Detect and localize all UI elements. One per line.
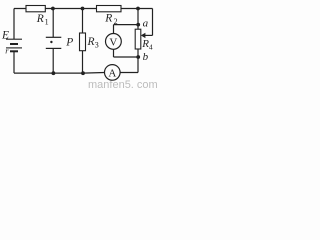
wire node b down [137,57,139,73]
background [0,0,159,89]
wire R3 branch top [82,9,84,34]
node a [136,23,140,27]
resistor R1 [26,6,45,12]
svg-text:R: R [104,13,112,25]
wire battery to bottom [13,51,15,73]
voltmeter V [106,34,122,50]
wire voltmeter top [113,25,115,34]
capacitor P bottom plate [46,47,62,49]
rheostat R4 [135,29,141,49]
wire node a branch [137,9,139,30]
wire bottom (y=72.8) [14,72,105,75]
node b [136,55,140,59]
junction top-R3 [81,7,85,11]
capacitor P top plate [46,36,62,38]
wire left (x=14 top corner down to battery) [13,9,15,40]
svg-text:E: E [1,30,9,42]
svg-text:a: a [143,17,149,29]
svg-text:1: 1 [45,18,49,27]
wire capacitor branch top [52,9,54,38]
junction top-a [136,7,140,11]
resistor R2 [97,6,122,12]
svg-text:3: 3 [95,41,99,50]
wire R4 to node b [137,49,139,57]
battery E with internal resistance r [6,39,22,51]
wire capacitor bottom [52,48,54,73]
svg-text:manfen5. com: manfen5. com [88,79,158,89]
svg-text:R: R [36,13,44,25]
wire ammeter right to b branch [120,72,138,74]
junction top-capacitor [51,7,55,11]
svg-text:P: P [65,37,73,49]
svg-text:V: V [109,37,117,49]
svg-text:A: A [108,68,116,80]
wire voltmeter bottom [113,49,115,57]
svg-text:b: b [143,51,149,63]
charged particle in capacitor [50,41,52,43]
wire top (y=8.5 from x=14 to x=152.5) [14,8,153,10]
wire right (x=152.5 down to wiper tail) [152,9,154,36]
svg-text:4: 4 [149,42,153,51]
junction bottom-capacitor [52,71,56,75]
wire b to voltmeter [114,56,139,58]
wire a to voltmeter [114,24,139,26]
rheostat wiper arrow [145,34,153,36]
resistor R3 [80,33,86,51]
wire R3 bottom [82,51,84,73]
ammeter A [105,65,121,81]
svg-text:R: R [87,36,95,48]
junction bottom-R3 [81,71,85,75]
